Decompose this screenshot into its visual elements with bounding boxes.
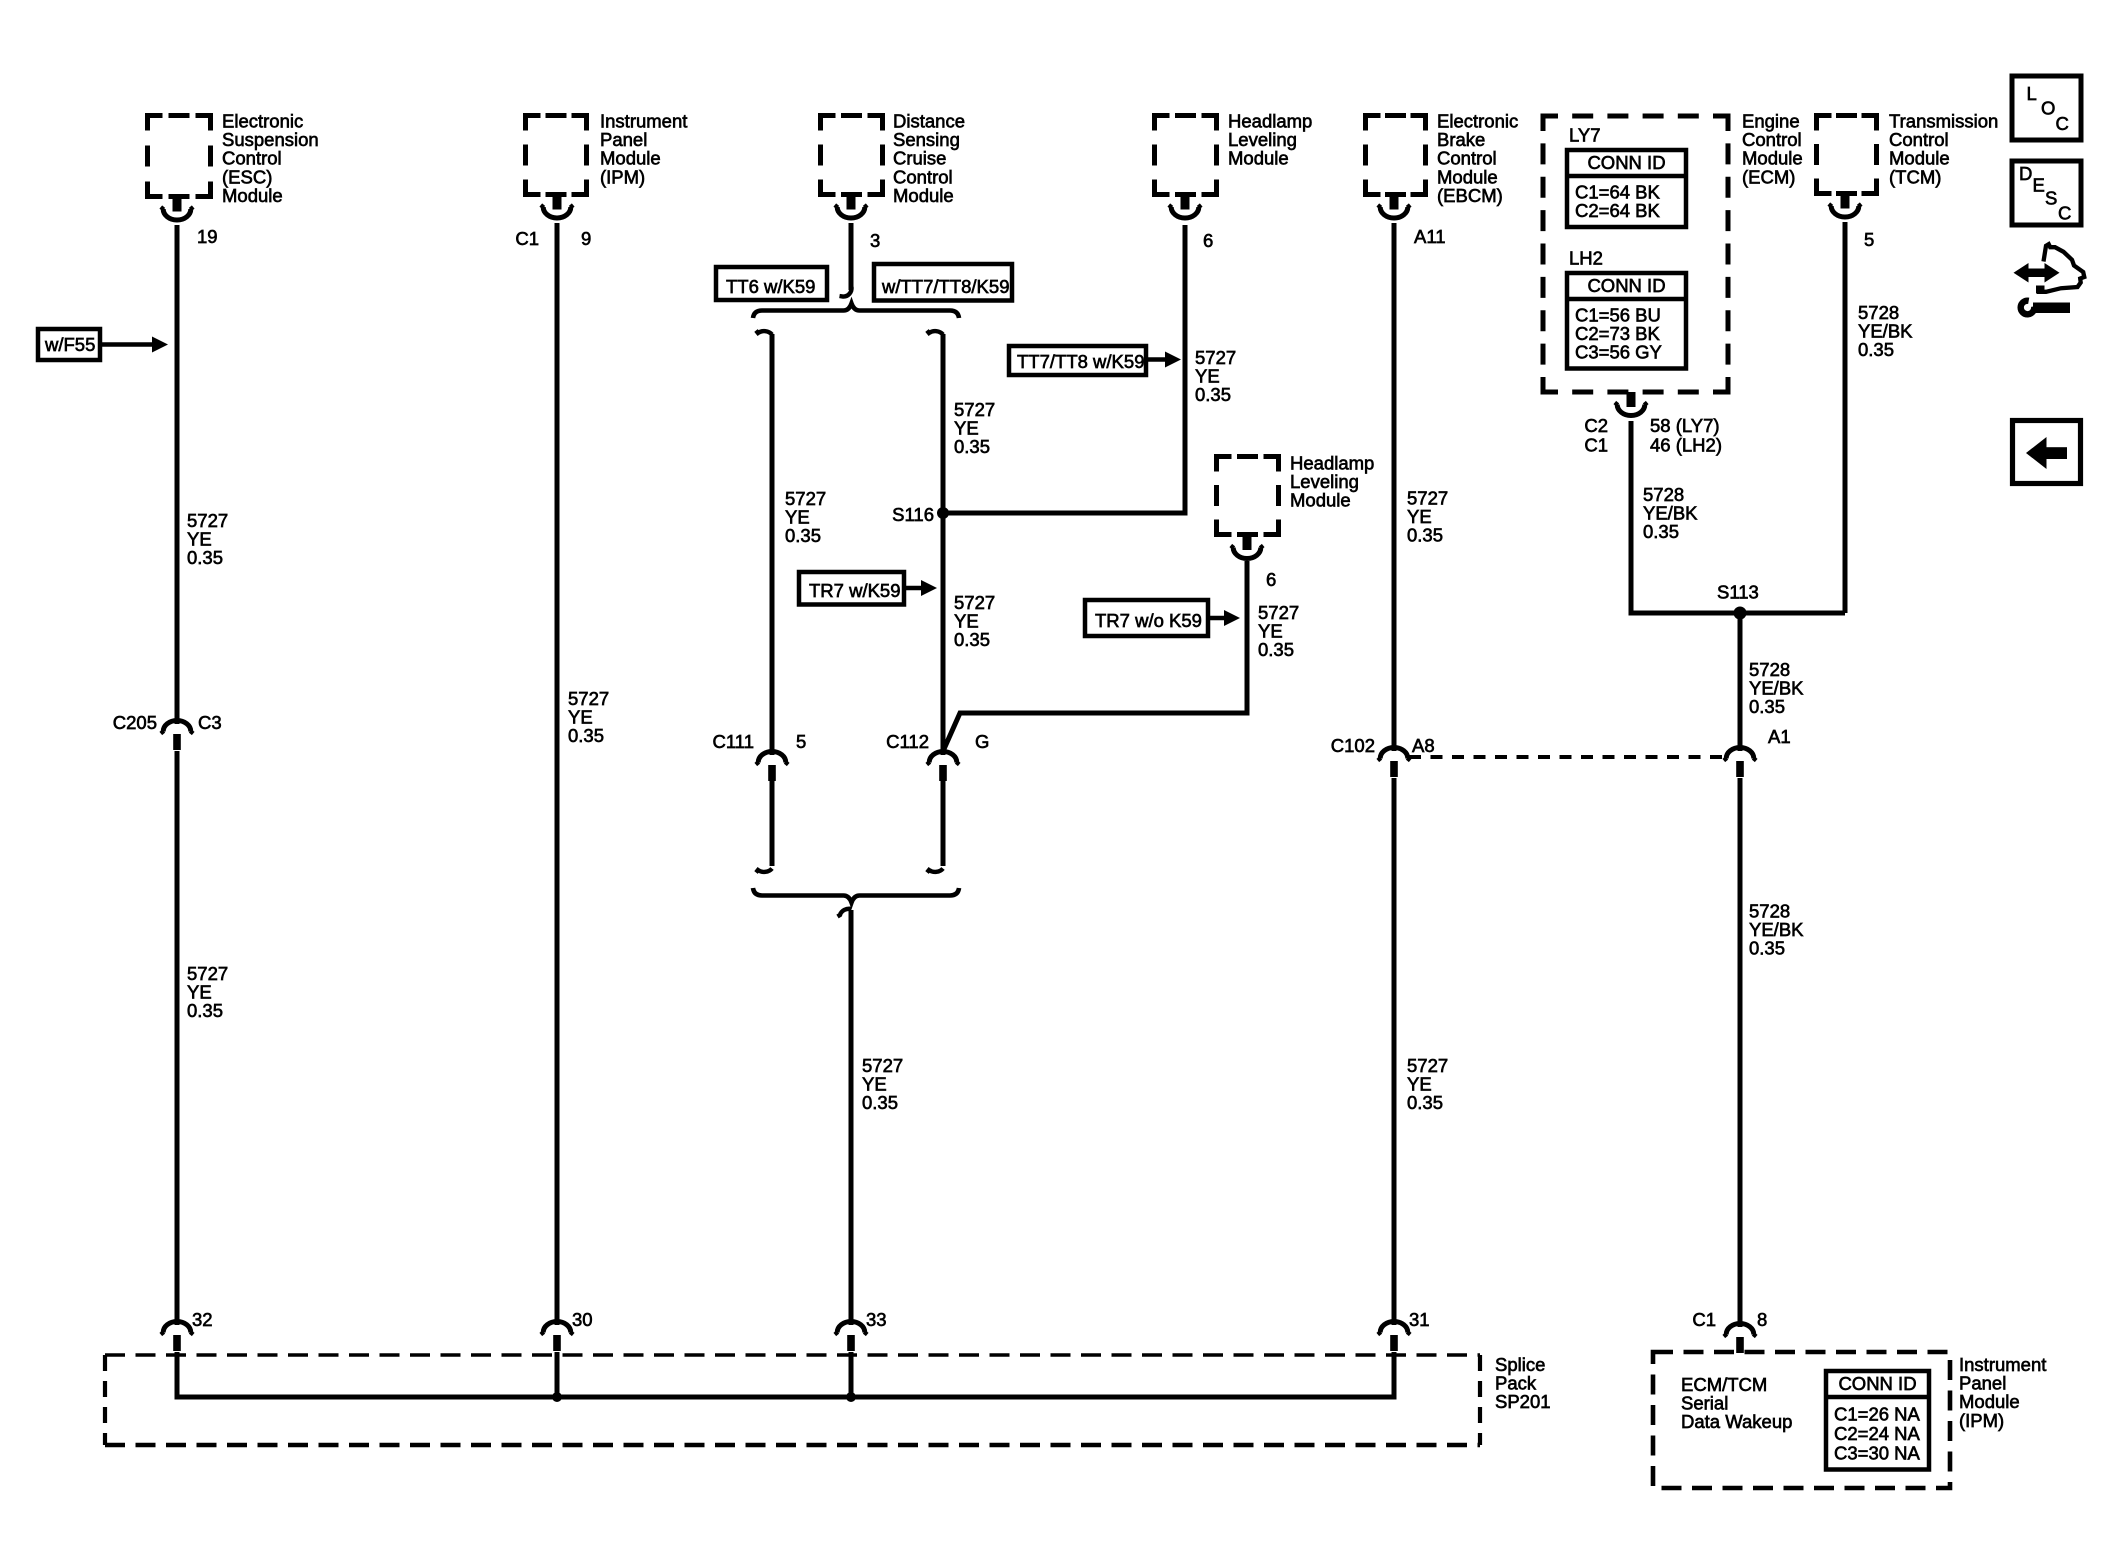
label box TR7 w/o K59 [1085, 600, 1208, 636]
splice bus junction at pin 33 [846, 1392, 856, 1402]
svg-text:Module: Module [1228, 148, 1289, 169]
wire label 5727 YE 0.35 (C112 upper) [954, 399, 995, 457]
pin label A8 [1412, 735, 1435, 756]
svg-text:A1: A1 [1768, 726, 1791, 747]
svg-text:5: 5 [796, 731, 806, 752]
svg-text:C1: C1 [1692, 1309, 1716, 1330]
svg-text:0.35: 0.35 [1643, 521, 1679, 542]
label module Headlamp Leveling top [1228, 111, 1312, 169]
svg-text:TT7/TT8 w/K59: TT7/TT8 w/K59 [1017, 351, 1144, 372]
CONN ID table LH2 [1567, 273, 1686, 369]
arrow from w/F55 to ESC wire [100, 337, 168, 353]
pin label A1 [1768, 726, 1791, 747]
module IPM (Instrument Panel Module) [526, 116, 587, 195]
svg-text:6: 6 [1203, 230, 1213, 251]
svg-text:Module: Module [1290, 490, 1351, 511]
svg-text:(IPM): (IPM) [1959, 1410, 2004, 1431]
branch wire 5727 YE to C111 [770, 334, 775, 750]
pin label 9 [581, 228, 591, 249]
dashed wire A8 to A1 [1409, 755, 1724, 759]
icon vehicle with double arrow and wrench [2014, 244, 2085, 314]
pin label 5 [1864, 229, 1874, 250]
in-line connector C111 pin 5 [756, 748, 788, 781]
label box TR7 w/K59 [799, 572, 904, 605]
wire pin 33 into bus [849, 1352, 854, 1397]
label module DSCC [893, 111, 965, 206]
splice pack SP201 box [105, 1355, 1480, 1445]
pin label 31 [1409, 1309, 1430, 1330]
svg-text:A11: A11 [1414, 226, 1446, 247]
wire label 5727 YE 0.35 (EBCM lower) [1407, 1055, 1448, 1113]
label box TT7/TT8 w/K59 [1009, 346, 1146, 375]
label S113 [1717, 582, 1759, 603]
svg-text:CONN ID: CONN ID [1587, 152, 1665, 173]
connector label C1 [515, 228, 539, 249]
svg-text:G: G [975, 731, 989, 752]
svg-text:8: 8 [1757, 1309, 1767, 1330]
pin label 6 at middle headlamp [1266, 569, 1276, 590]
connector pin 3 at DSCC module [835, 195, 867, 219]
wire 5727 YE from EBCM A11 to C102 [1392, 223, 1397, 746]
merged wire 5727 YE to splice pin 33 [849, 910, 854, 1320]
pin label 6 [1203, 230, 1213, 251]
pin label 8 [1757, 1309, 1767, 1330]
svg-text:L: L [2027, 83, 2037, 104]
pin label 33 [866, 1309, 887, 1330]
svg-text:0.35: 0.35 [187, 1000, 223, 1021]
splice S116 [937, 507, 949, 519]
wire label 5728 YE/BK 0.35 (TCM) [1858, 302, 1913, 360]
wire 5728 YE/BK from S113 to A1 [1738, 613, 1743, 746]
connector C2/C1 at ECM [1615, 392, 1647, 416]
svg-text:TR7 w/o K59: TR7 w/o K59 [1095, 610, 1202, 631]
svg-text:0.35: 0.35 [1195, 384, 1231, 405]
pin label 5 at C111 [796, 731, 806, 752]
connector pin 6 at Headlamp Leveling middle [1231, 535, 1263, 559]
CONN ID table LY7 [1567, 150, 1686, 227]
splice pack connector pin 32 [161, 1318, 193, 1351]
connector pin 5 at TCM [1829, 194, 1861, 218]
in-line connector A1 [1724, 744, 1756, 777]
module Headlamp Leveling (middle) [1217, 457, 1279, 535]
svg-text:0.35: 0.35 [954, 629, 990, 650]
svg-text:CONN ID: CONN ID [1838, 1373, 1916, 1394]
wire from S116 to Headlamp Leveling Module pin 6 [943, 225, 1185, 513]
splice pack connector pin 31 [1378, 1318, 1410, 1351]
svg-text:0.35: 0.35 [1749, 696, 1785, 717]
svg-text:w/F55: w/F55 [44, 334, 95, 355]
svg-text:A8: A8 [1412, 735, 1435, 756]
svg-text:C2=24 NA: C2=24 NA [1834, 1423, 1921, 1444]
label module ECM [1742, 111, 1803, 188]
svg-text:C: C [2056, 113, 2069, 134]
connector pin 6 at Headlamp Leveling Module top [1169, 195, 1201, 219]
svg-text:Data Wakeup: Data Wakeup [1681, 1411, 1792, 1432]
hook at branch wire top (C111 side) [756, 331, 772, 335]
connector label C1 at ECM [1584, 435, 1608, 456]
harness brace top [753, 304, 959, 319]
pin label 58 (LY7) [1650, 415, 1720, 436]
svg-text:C2: C2 [1584, 415, 1608, 436]
label module IPM [600, 111, 687, 188]
splice pack connector pin 30 [541, 1318, 573, 1351]
svg-text:C: C [2058, 203, 2071, 224]
svg-text:32: 32 [192, 1309, 213, 1330]
wire 5727 YE from ESC pin 19 to C205 [175, 225, 180, 719]
label box w/F55 [38, 329, 100, 360]
wire 5728 YE/BK from ECM to S113 and TCM [1631, 421, 1845, 613]
icon box back-arrow [2013, 421, 2081, 484]
label LH2 [1569, 248, 1603, 269]
pin label 46 (LH2) [1650, 435, 1722, 456]
svg-text:0.35: 0.35 [1258, 639, 1294, 660]
hook at branch wire bottom (C111 side) [756, 869, 772, 873]
wire 5727 YE from middle headlamp to C112 joint [944, 561, 1247, 749]
icon box DESC [2012, 161, 2081, 225]
svg-text:Module: Module [222, 185, 283, 206]
icon box LOC [2012, 76, 2081, 140]
wire label 5727 YE 0.35 (IPM) [568, 688, 609, 746]
module Headlamp Leveling (top) [1155, 116, 1217, 195]
wire label 5728 YE/BK 0.35 (ECM) [1643, 484, 1698, 542]
svg-text:C1=26 NA: C1=26 NA [1834, 1404, 1921, 1425]
svg-text:C3=56 GY: C3=56 GY [1575, 342, 1662, 363]
module EBCM (Electronic Brake Control) [1366, 116, 1426, 195]
module ECM (Engine Control Module) outline [1543, 116, 1728, 392]
pin label 30 [572, 1309, 593, 1330]
wire pin 30 into bus [555, 1352, 560, 1397]
label S116 [892, 504, 934, 525]
wire 5727 YE from C102 to splice pin 31 [1392, 778, 1397, 1320]
wire label 5727 YE 0.35 (ESC upper) [187, 510, 228, 568]
wire label 5727 YE 0.35 (EBCM upper) [1407, 488, 1448, 546]
connector label C205 [113, 712, 157, 733]
svg-text:0.35: 0.35 [1407, 1092, 1443, 1113]
svg-text:(IPM): (IPM) [600, 166, 645, 187]
pin label 19 [197, 226, 218, 247]
svg-text:0.35: 0.35 [862, 1092, 898, 1113]
wire label 5727 YE 0.35 (C112 lower) [954, 592, 995, 650]
wire 5728 YE/BK from A1 to IPM C1 pin 8 [1738, 778, 1743, 1322]
svg-text:(ECM): (ECM) [1742, 166, 1795, 187]
pin label 32 [192, 1309, 213, 1330]
branch wire 5727 YE to C112 with splice S116 [941, 334, 946, 750]
svg-text:LH2: LH2 [1569, 248, 1603, 269]
svg-text:C3: C3 [198, 712, 222, 733]
svg-text:31: 31 [1409, 1309, 1430, 1330]
svg-text:9: 9 [581, 228, 591, 249]
CONN ID table IPM bottom [1826, 1371, 1929, 1470]
wire 5727 YE from C3 to splice pin 32 [175, 751, 180, 1320]
label box w/TT7/TT8/K59 [874, 264, 1012, 301]
svg-text:C2=64 BK: C2=64 BK [1575, 200, 1661, 221]
svg-text:w/TT7/TT8/K59: w/TT7/TT8/K59 [881, 276, 1009, 297]
label LY7 [1569, 125, 1601, 146]
svg-text:E: E [2033, 175, 2045, 196]
svg-text:C112: C112 [886, 731, 929, 752]
connector label C2 [1584, 415, 1608, 436]
arrow from TT7/TT8 w/K59 to headlamp wire [1146, 352, 1181, 368]
connector pin A11 at EBCM [1378, 195, 1410, 219]
wire 5727 YE from IPM pin 9 to splice pin 30 [555, 223, 560, 1320]
hook at branch wire top (C112 side) [927, 331, 943, 335]
svg-text:C1: C1 [1584, 435, 1608, 456]
splice pack connector pin 33 [835, 1318, 867, 1351]
svg-text:(EBCM): (EBCM) [1437, 185, 1503, 206]
svg-text:C205: C205 [113, 712, 157, 733]
wire label 5727 YE 0.35 (merged branch) [862, 1055, 903, 1113]
branch wire below C111 [770, 781, 775, 866]
svg-text:3: 3 [870, 230, 880, 251]
in-line connector C112 pin G [927, 748, 959, 781]
wire label 5727 YE 0.35 (ESC lower) [187, 963, 228, 1021]
svg-text:C111: C111 [713, 731, 754, 752]
svg-text:0.35: 0.35 [568, 725, 604, 746]
svg-text:S: S [2045, 188, 2057, 209]
connector label C112 [886, 731, 929, 752]
splice pack SP201 bus wire [177, 1352, 1394, 1397]
in-line connector C205 / C3 [161, 717, 193, 750]
svg-text:30: 30 [572, 1309, 593, 1330]
splice S113 [1734, 607, 1747, 620]
svg-text:19: 19 [197, 226, 218, 247]
svg-text:TR7 w/K59: TR7 w/K59 [809, 580, 901, 601]
connector label C102 [1331, 735, 1375, 756]
module ESC (Electronic Suspension Control) [148, 116, 211, 197]
label box TT6 w/K59 [716, 267, 827, 300]
svg-text:0.35: 0.35 [954, 436, 990, 457]
label ECM/TCM Serial Data Wakeup [1681, 1374, 1792, 1432]
svg-text:C102: C102 [1331, 735, 1375, 756]
connector label C1 bottom [1692, 1309, 1716, 1330]
in-line connector C102 pin A8 [1378, 744, 1410, 777]
label module IPM bottom [1959, 1354, 2046, 1431]
hook at DSCC wire end [840, 287, 852, 297]
module DSCC (Distance Sensing Cruise Control) [821, 116, 883, 195]
wire label 5728 YE/BK 0.35 (S113 to A1) [1749, 659, 1804, 717]
wire label 5728 YE/BK 0.35 (A1 to IPM) [1749, 901, 1804, 959]
wire label 5727 YE 0.35 (headlamp top) [1195, 347, 1236, 405]
pin label 3 [870, 230, 880, 251]
connector C1 pin 9 at IPM [541, 195, 573, 218]
label module Headlamp Leveling middle [1290, 453, 1374, 511]
arrow from TR7 w/K59 to C112 branch [904, 580, 937, 596]
svg-text:33: 33 [866, 1309, 887, 1330]
svg-text:0.35: 0.35 [187, 547, 223, 568]
splice bus junction at pin 30 [552, 1392, 562, 1402]
svg-text:5: 5 [1864, 229, 1874, 250]
svg-text:SP201: SP201 [1495, 1391, 1551, 1412]
module TCM (Transmission Control) [1817, 116, 1877, 194]
svg-text:(TCM): (TCM) [1889, 166, 1941, 187]
svg-text:C3=30 NA: C3=30 NA [1834, 1443, 1921, 1464]
wire label 5727 YE 0.35 (C111 branch) [785, 488, 826, 546]
hook below bottom brace [838, 909, 852, 917]
svg-text:CONN ID: CONN ID [1587, 275, 1665, 296]
label module TCM [1889, 111, 1998, 188]
svg-text:S113: S113 [1717, 582, 1759, 603]
svg-text:Module: Module [893, 185, 954, 206]
connector label C3 [198, 712, 222, 733]
module IPM bottom (ECM/TCM Serial Data Wakeup) box [1653, 1352, 1950, 1488]
svg-text:6: 6 [1266, 569, 1276, 590]
svg-text:0.35: 0.35 [785, 525, 821, 546]
branch wire below C112 [941, 781, 946, 866]
svg-text:58 (LY7): 58 (LY7) [1650, 415, 1720, 436]
svg-text:46 (LH2): 46 (LH2) [1650, 435, 1722, 456]
connector label C111 [713, 731, 754, 752]
harness brace bottom [753, 888, 959, 903]
connector pin 19 at ESC module [161, 197, 193, 221]
svg-text:D: D [2019, 163, 2032, 184]
wire label 5727 YE 0.35 (headlamp middle) [1258, 602, 1299, 660]
hook at branch wire bottom (C112 side) [927, 869, 943, 873]
svg-text:0.35: 0.35 [1858, 339, 1894, 360]
svg-text:O: O [2041, 98, 2055, 119]
wire 5728 YE/BK from TCM pin 5 to S113 [1843, 222, 1848, 613]
wire from DSCC pin 3 to harness brace [849, 223, 854, 290]
pin label G at C112 [975, 731, 989, 752]
svg-text:C1: C1 [515, 228, 539, 249]
pin label A11 [1414, 226, 1446, 247]
svg-text:LY7: LY7 [1569, 125, 1601, 146]
svg-text:TT6 w/K59: TT6 w/K59 [726, 276, 815, 297]
in-line connector C1 pin 8 at IPM [1724, 1320, 1756, 1353]
label module ESC [222, 111, 319, 206]
svg-text:0.35: 0.35 [1749, 938, 1785, 959]
arrow from TR7 w/o K59 to headlamp wire [1208, 610, 1240, 626]
label Splice Pack SP201 [1495, 1354, 1551, 1412]
svg-text:S116: S116 [892, 504, 934, 525]
label module EBCM [1437, 111, 1518, 206]
svg-text:0.35: 0.35 [1407, 525, 1443, 546]
